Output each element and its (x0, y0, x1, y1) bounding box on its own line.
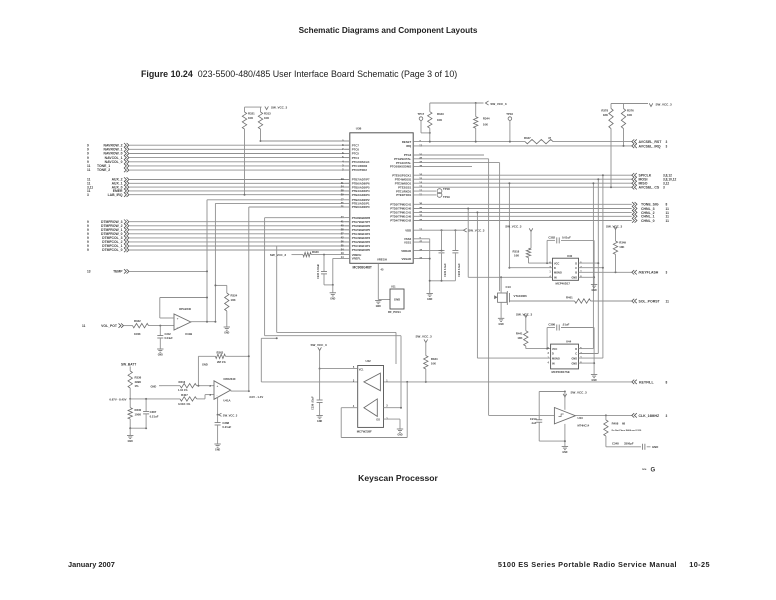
svg-text:PTG0\BKGD\MS: PTG0\BKGD\MS (390, 165, 411, 169)
svg-text:GND: GND (224, 333, 229, 335)
svg-text:GND: GND (394, 298, 400, 302)
svg-text:R340: R340 (312, 250, 319, 254)
svg-text:D: D (575, 262, 577, 265)
svg-text:1%: 1% (135, 384, 140, 388)
svg-text:MONO: MONO (554, 272, 562, 275)
svg-text:11: 11 (666, 219, 670, 223)
svg-text:R322: R322 (134, 319, 141, 323)
svg-text:SW_VCC_3: SW_VCC_3 (606, 225, 623, 229)
svg-text:VREFL: VREFL (352, 257, 361, 261)
svg-text:R316: R316 (179, 380, 186, 384)
svg-text:U42: U42 (366, 359, 372, 363)
svg-text:0.01uF: 0.01uF (562, 235, 571, 239)
svg-text:R347: R347 (524, 136, 531, 140)
svg-text:GND: GND (376, 306, 381, 308)
svg-text:4: 4 (342, 159, 344, 163)
svg-text:MONO: MONO (552, 357, 560, 360)
svg-text:11: 11 (87, 168, 91, 172)
svg-text:.1uF: .1uF (531, 421, 537, 425)
svg-text:3: 3 (87, 193, 89, 197)
svg-text:SW_VCC_3: SW_VCC_3 (516, 312, 533, 316)
svg-text:SW_VCC_3: SW_VCC_3 (571, 390, 588, 394)
svg-text:SOL_PORST: SOL_PORST (639, 299, 661, 303)
svg-text:D: D (552, 353, 554, 356)
svg-text:3300pF: 3300pF (624, 441, 634, 445)
svg-text:2M 1%: 2M 1% (217, 360, 226, 364)
svg-text:GND: GND (571, 362, 577, 365)
svg-text:100K: 100K (135, 413, 142, 417)
svg-text:SW_VCC_3: SW_VCC_3 (416, 335, 433, 339)
svg-text:OPA2340: OPA2340 (223, 377, 236, 381)
svg-text:15: 15 (419, 177, 422, 181)
svg-text:/KEYFLASH: /KEYFLASH (639, 271, 659, 275)
svg-text:PTE0\TXD1: PTE0\TXD1 (396, 193, 411, 197)
svg-text:SW_VCC_3: SW_VCC_3 (656, 103, 673, 107)
svg-text:10K: 10K (431, 362, 436, 366)
svg-text:42: 42 (419, 156, 422, 160)
svg-text:45: 45 (381, 268, 384, 272)
svg-text:10K: 10K (483, 123, 488, 127)
svg-text:PTD4\TPM2CH2: PTD4\TPM2CH2 (390, 219, 411, 223)
svg-text:VOL_POT: VOL_POT (101, 324, 118, 328)
svg-text:9: 9 (87, 248, 89, 252)
svg-text:SW_VCC_3: SW_VCC_3 (271, 106, 288, 110)
svg-text:MC7WZ28F: MC7WZ28F (357, 430, 372, 434)
svg-text:IRQ: IRQ (406, 144, 412, 148)
svg-text:LAB_IRQ: LAB_IRQ (108, 193, 123, 197)
svg-text:C236 .01uF: C236 .01uF (311, 396, 315, 410)
svg-text:VSSAD: VSSAD (402, 257, 412, 261)
svg-text:47: 47 (548, 136, 552, 140)
svg-text:GND: GND (499, 324, 504, 326)
svg-text:AVCSEL_CS: AVCSEL_CS (639, 186, 660, 190)
svg-text:CLK_16MHZ: CLK_16MHZ (639, 414, 660, 418)
svg-text:AVCSEL_IRQ: AVCSEL_IRQ (639, 144, 661, 148)
svg-text:10K: 10K (248, 116, 253, 120)
svg-text:43: 43 (341, 215, 344, 219)
svg-text:.01uF: .01uF (562, 322, 570, 326)
svg-text:PTC0\TXD2: PTC0\TXD2 (352, 168, 368, 172)
svg-text:VCC: VCC (552, 348, 557, 351)
svg-text:1.04 1%: 1.04 1% (178, 388, 188, 392)
svg-text:19: 19 (419, 152, 422, 156)
svg-text:D: D (554, 267, 556, 270)
svg-text:GND: GND (562, 452, 567, 454)
svg-text:TP19: TP19 (443, 195, 450, 199)
svg-text:36: 36 (419, 202, 422, 206)
svg-text:IN: IN (554, 277, 557, 280)
svg-text:3: 3 (386, 405, 388, 408)
svg-text:TONE_2: TONE_2 (97, 168, 110, 172)
svg-text:Do Not Place R408 and C219: Do Not Place R408 and C219 (612, 429, 642, 432)
svg-text:46: 46 (419, 164, 422, 168)
svg-text:3: 3 (666, 271, 668, 275)
svg-text:U40: U40 (567, 254, 573, 258)
svg-text:68: 68 (622, 422, 626, 426)
svg-text:OPA2340: OPA2340 (179, 307, 192, 311)
svg-text:0.21uF: 0.21uF (222, 425, 231, 429)
svg-text:GND: GND (215, 450, 220, 452)
svg-text:MCP40D17SE: MCP40D17SE (552, 370, 570, 374)
svg-text:10K: 10K (437, 118, 442, 122)
svg-text:3: 3 (666, 414, 668, 418)
svg-text:PTA0\KBI0\P0: PTA0\KBI0\P0 (352, 248, 371, 252)
svg-text:VDDAD: VDDAD (401, 249, 411, 253)
svg-text:7: 7 (419, 139, 421, 143)
svg-text:U11: U11 (391, 285, 396, 289)
svg-text:32: 32 (419, 218, 422, 222)
svg-text:SW_VCC_3: SW_VCC_3 (490, 102, 507, 106)
svg-text:12: 12 (419, 189, 422, 193)
svg-text:R344: R344 (483, 117, 490, 121)
svg-text:SW_VCC_3: SW_VCC_3 (311, 343, 328, 347)
svg-text:10K: 10K (627, 113, 632, 117)
svg-text:4: 4 (547, 362, 549, 365)
svg-text:U41A: U41A (223, 399, 230, 403)
svg-text:C348: C348 (612, 441, 619, 445)
svg-text:KEYFILL: KEYFILL (639, 380, 654, 384)
svg-text:VDD: VDD (405, 228, 411, 232)
svg-text:CHNL_0: CHNL_0 (641, 219, 655, 223)
svg-text:B: B (575, 272, 577, 275)
svg-text:VC1: VC1 (359, 368, 364, 371)
svg-text:MCP40D17: MCP40D17 (556, 282, 571, 286)
svg-text:GND: GND (427, 299, 432, 301)
svg-text:GND: GND (128, 441, 133, 443)
svg-text:GND: GND (397, 435, 402, 437)
svg-text:U41B: U41B (185, 332, 192, 336)
svg-text:C382: C382 (548, 235, 555, 239)
svg-text:TP18: TP18 (443, 187, 450, 191)
svg-text:TEMP: TEMP (113, 270, 123, 274)
svg-text:IN: IN (552, 362, 555, 365)
svg-text:PTB3\AD3\P3: PTB3\AD3\P3 (352, 193, 370, 197)
svg-text:44: 44 (419, 256, 422, 260)
svg-text:R401: R401 (566, 296, 573, 300)
svg-text:+: + (217, 384, 219, 388)
svg-text:14: 14 (419, 181, 422, 185)
svg-text:GND: GND (592, 290, 597, 292)
svg-text:R407: R407 (181, 393, 188, 397)
svg-text:R363: R363 (217, 350, 224, 354)
svg-text:PTB0\AD0\P0: PTB0\AD0\P0 (352, 205, 370, 209)
svg-text:11: 11 (666, 299, 670, 303)
svg-text:10K: 10K (517, 336, 522, 340)
svg-text:M74HC14: M74HC14 (578, 423, 590, 427)
svg-text:U43: U43 (578, 416, 584, 420)
svg-text:GND: GND (652, 445, 658, 449)
svg-text:42: 42 (419, 240, 422, 244)
svg-text:R343: R343 (437, 112, 444, 116)
svg-text:12: 12 (419, 228, 422, 232)
svg-text:3.0V - 1.4V: 3.0V - 1.4V (249, 395, 263, 399)
svg-text:40: 40 (341, 223, 344, 227)
svg-text:C231 0.1uF: C231 0.1uF (443, 263, 447, 277)
svg-text:SW_VCC_3: SW_VCC_3 (505, 225, 522, 229)
svg-text:GND: GND (571, 277, 577, 280)
svg-text:11: 11 (419, 192, 422, 196)
svg-text:rev.: rev. (642, 467, 647, 471)
svg-text:-: - (177, 326, 178, 330)
svg-text:3: 3 (547, 352, 549, 355)
svg-text:SW_VCC_3: SW_VCC_3 (270, 253, 287, 257)
svg-text:13: 13 (419, 143, 422, 147)
svg-text:GND: GND (158, 355, 163, 357)
svg-text:C233 0.1uF: C233 0.1uF (457, 263, 461, 277)
svg-text:0.21uF: 0.21uF (150, 415, 159, 419)
svg-text:GND: GND (317, 421, 322, 423)
svg-text:13: 13 (419, 185, 422, 189)
svg-text:SW_VCC_3: SW_VCC_3 (468, 229, 485, 233)
svg-text:3.01K 1%: 3.01K 1% (178, 402, 191, 406)
svg-text:0.04uF: 0.04uF (165, 336, 174, 340)
svg-text:11: 11 (82, 324, 86, 328)
svg-text:VREGH: VREGH (377, 258, 387, 262)
svg-text:VCC: VCC (554, 262, 559, 265)
svg-text:3: 3 (666, 144, 668, 148)
svg-text:33: 33 (419, 214, 422, 218)
svg-text:35: 35 (419, 206, 422, 210)
svg-text:RF_POS1: RF_POS1 (388, 310, 401, 314)
svg-text:+: + (177, 316, 179, 320)
svg-text:TP17: TP17 (418, 112, 425, 116)
svg-text:C: C (575, 353, 577, 356)
svg-text:SW_VCC_3: SW_VCC_3 (223, 413, 238, 417)
svg-text:TP16: TP16 (506, 112, 513, 116)
svg-text:34: 34 (419, 210, 422, 214)
svg-text:1: 1 (549, 271, 551, 274)
svg-text:VSS1: VSS1 (404, 240, 412, 244)
svg-text:U44: U44 (566, 339, 572, 343)
svg-text:SW_BATT: SW_BATT (121, 362, 136, 366)
svg-text:10K: 10K (619, 245, 624, 249)
svg-text:100K: 100K (134, 332, 141, 336)
svg-text:R408: R408 (612, 422, 619, 426)
svg-text:GND: GND (202, 363, 208, 367)
svg-text:10K: 10K (514, 254, 519, 258)
svg-text:C386: C386 (548, 322, 555, 326)
svg-text:DTMFCOL_0: DTMFCOL_0 (102, 248, 122, 252)
svg-text:6.67V - 8.45V: 6.67V - 8.45V (109, 397, 126, 401)
svg-text:13: 13 (87, 270, 91, 274)
svg-text:43: 43 (419, 248, 422, 252)
svg-text:VTA04066: VTA04066 (514, 294, 528, 298)
svg-text:MC908GR8T: MC908GR8T (353, 266, 372, 270)
svg-text:D: D (575, 348, 577, 351)
svg-text:3: 3 (663, 186, 665, 190)
svg-text:10K: 10K (231, 298, 236, 302)
svg-text:GND: GND (571, 357, 577, 360)
svg-text:GND: GND (151, 384, 157, 388)
svg-text:C342: C342 (165, 332, 172, 336)
svg-text:18K: 18K (603, 113, 608, 117)
svg-text:C234 0.04uF: C234 0.04uF (316, 263, 320, 279)
svg-text:C: C (575, 267, 577, 270)
svg-text:GO: GO (376, 418, 380, 421)
svg-text:-: - (217, 393, 218, 397)
svg-text:8: 8 (666, 380, 668, 384)
svg-text:U36: U36 (356, 126, 362, 130)
svg-text:43: 43 (419, 160, 422, 164)
svg-text:16: 16 (419, 173, 422, 177)
svg-text:C13: C13 (506, 285, 512, 289)
svg-text:10K: 10K (264, 116, 269, 120)
svg-text:GND: GND (330, 298, 335, 300)
